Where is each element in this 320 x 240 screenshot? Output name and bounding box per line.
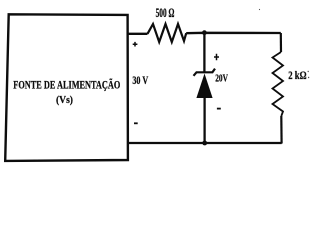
plus sign zener: [214, 54, 219, 61]
resistor 500 ohm zigzag: [148, 24, 187, 42]
plus sign source: [133, 42, 138, 47]
power supply box (Vs): [5, 14, 128, 161]
minus sign zener: [217, 108, 221, 110]
wire zener top lead: [203, 33, 205, 72]
svg-text:20V: 20V: [215, 72, 228, 84]
node junction top: [202, 30, 207, 35]
wire right top lead: [280, 33, 282, 52]
node junction bottom: [202, 141, 207, 146]
wire top left: [128, 33, 148, 35]
svg-text:(Vs): (Vs): [56, 94, 73, 106]
svg-text:500 Ω: 500 Ω: [156, 6, 175, 20]
scan speckles near 2 kΩ label: [259, 9, 309, 78]
zener cathode bar: [194, 69, 216, 76]
wire bottom: [128, 142, 282, 144]
minus sign source: [134, 122, 138, 124]
svg-text:30 V: 30 V: [132, 75, 148, 87]
wire top middle: [186, 32, 281, 35]
wire zener bottom lead: [203, 98, 205, 143]
svg-text:2 kΩ: 2 kΩ: [288, 69, 306, 82]
resistor 2 kΩ zigzag: [273, 52, 284, 116]
zener diode D1 triangle: [196, 74, 212, 99]
wire right bottom lead: [280, 116, 283, 144]
svg-text:FONTE DE ALIMENTAÇÃO: FONTE DE ALIMENTAÇÃO: [13, 80, 120, 92]
